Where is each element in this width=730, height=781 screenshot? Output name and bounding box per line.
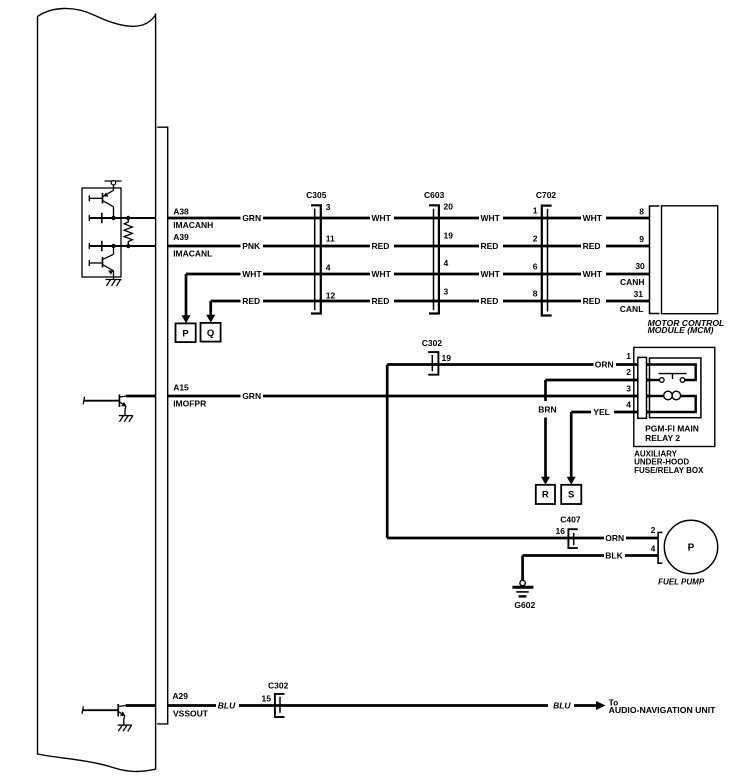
svg-text:G602: G602 <box>514 600 535 610</box>
ground G602 <box>520 580 525 585</box>
wire ORN riser to fuel pump feed <box>386 365 389 539</box>
relay bottom bus (pin4 to coil) <box>650 396 696 412</box>
wire BRN vertical to R <box>541 380 550 485</box>
relay top bus (pin1 to contact) <box>650 365 696 381</box>
relay box outer (aux fuse/relay box) <box>634 347 715 446</box>
svg-text:IMOFPR: IMOFPR <box>173 398 206 408</box>
svg-text:FUEL PUMP: FUEL PUMP <box>658 578 705 587</box>
connector C302 (pin 15) <box>275 694 285 717</box>
wire row4 RED (CANL) <box>211 300 650 303</box>
svg-text:R: R <box>542 490 549 501</box>
transistor Q5 (IMOFPR driver) <box>83 395 127 416</box>
svg-text:GRN: GRN <box>242 391 261 401</box>
svg-text:WHT: WHT <box>481 213 501 223</box>
transistor Q4 (bottom NPN) <box>89 246 113 280</box>
svg-text:WHT: WHT <box>372 213 392 223</box>
svg-text:IMACANL: IMACANL <box>173 248 212 258</box>
svg-text:RED: RED <box>583 241 601 251</box>
wire BLK fuel pump ground <box>523 556 659 581</box>
svg-text:2: 2 <box>651 525 656 535</box>
svg-text:C302: C302 <box>422 338 443 348</box>
connector column bracket (module pin column) <box>157 127 168 724</box>
transistor Q6 (VSSOUT driver) <box>82 704 126 725</box>
svg-text:19: 19 <box>444 230 454 240</box>
svg-text:CANH: CANH <box>620 277 645 287</box>
wire row1 GRN/WHT (IMACANH) <box>168 217 650 220</box>
node on IMACANL <box>111 244 115 248</box>
svg-text:12: 12 <box>326 291 336 301</box>
svg-text:C407: C407 <box>560 514 581 524</box>
svg-text:PNK: PNK <box>242 241 261 251</box>
wire A29 VSSOUT BLU <box>126 704 549 707</box>
connector C302 (pin 19) <box>428 352 438 375</box>
terminal box R <box>536 485 555 504</box>
transistor Q1 (top PNP) <box>89 190 113 207</box>
wire IMACANL feed inside module <box>89 245 155 247</box>
relay armature <box>659 373 687 375</box>
module torn outline (left shield, wavy top/bottom) <box>38 8 156 771</box>
svg-text:3: 3 <box>326 202 331 212</box>
arrow to terminal Q <box>206 301 215 323</box>
terminal box P <box>176 323 196 342</box>
svg-text:IMACANH: IMACANH <box>173 220 213 230</box>
svg-text:VSSOUT: VSSOUT <box>173 709 209 719</box>
svg-text:CANL: CANL <box>620 304 644 314</box>
svg-text:3: 3 <box>444 287 449 297</box>
fuel pump connector bracket <box>658 532 662 563</box>
svg-text:30: 30 <box>635 261 645 271</box>
connector C407 <box>568 529 577 548</box>
wire BRN relay pin2 <box>546 379 650 382</box>
MCM connector bracket <box>650 206 660 314</box>
wire YEL relay pin4 <box>571 411 649 414</box>
svg-text:C302: C302 <box>268 681 289 691</box>
svg-text:RED: RED <box>372 241 390 251</box>
svg-text:4: 4 <box>444 258 449 268</box>
relay connector bar <box>638 357 647 418</box>
svg-text:RELAY 2: RELAY 2 <box>645 433 680 443</box>
svg-text:P: P <box>182 328 189 339</box>
svg-text:AUDIO-NAVIGATION UNIT: AUDIO-NAVIGATION UNIT <box>609 705 717 715</box>
arrow to terminal P <box>182 274 191 323</box>
svg-text:15: 15 <box>262 694 272 704</box>
relay coil <box>650 395 664 397</box>
svg-text:1: 1 <box>626 351 631 361</box>
terminal box S <box>561 485 581 504</box>
svg-text:RED: RED <box>481 241 499 251</box>
svg-text:BLK: BLK <box>605 551 623 561</box>
terminal box Q <box>201 323 221 342</box>
fuel pump motor circle <box>664 520 717 573</box>
svg-text:C305: C305 <box>306 190 327 200</box>
connector C702 <box>542 206 552 316</box>
svg-text:20: 20 <box>444 202 454 212</box>
power terminal circle <box>111 181 115 185</box>
svg-text:8: 8 <box>639 207 644 217</box>
wire power to transistor Q1 <box>113 185 115 191</box>
resistor (CAN termination) <box>124 218 132 246</box>
svg-text:BLU: BLU <box>218 701 236 711</box>
svg-text:RED: RED <box>481 296 499 306</box>
svg-text:1: 1 <box>533 206 538 216</box>
svg-text:BLU: BLU <box>553 701 571 711</box>
connector C305 <box>311 205 321 313</box>
relay PGM-FI main relay 2 inner box <box>650 358 701 418</box>
MCM box <box>662 206 718 314</box>
svg-text:16: 16 <box>556 526 566 536</box>
svg-text:WHT: WHT <box>481 269 501 279</box>
svg-text:19: 19 <box>442 353 452 363</box>
transistor block box (CAN driver) <box>82 188 121 277</box>
svg-text:WHT: WHT <box>583 269 603 279</box>
svg-text:A39: A39 <box>173 232 189 242</box>
node on IMACANH <box>111 216 115 220</box>
svg-text:6: 6 <box>533 262 538 272</box>
svg-text:4: 4 <box>626 400 631 410</box>
svg-text:9: 9 <box>639 234 644 244</box>
wire IMACANH feed inside module <box>89 217 155 219</box>
svg-text:A38: A38 <box>173 207 189 217</box>
ground (Q6 emitter) <box>118 725 132 731</box>
svg-text:ORN: ORN <box>605 533 624 543</box>
svg-text:WHT: WHT <box>372 269 392 279</box>
svg-text:Q: Q <box>207 328 214 339</box>
svg-text:ORN: ORN <box>595 360 614 370</box>
svg-text:WHT: WHT <box>242 269 262 279</box>
wire Q1 collector to node <box>113 207 115 218</box>
svg-text:WHT: WHT <box>583 213 603 223</box>
connector C603 <box>429 205 439 313</box>
wire row2 PNK/RED (IMACANL) <box>168 245 650 248</box>
ground (Q5 emitter) <box>119 416 133 422</box>
svg-text:2: 2 <box>626 367 631 377</box>
svg-text:4: 4 <box>326 262 331 272</box>
ground (transistor block) <box>106 280 122 287</box>
svg-text:2: 2 <box>533 234 538 244</box>
svg-text:YEL: YEL <box>593 407 610 417</box>
wire A15 IMOFPR GRN <box>126 395 650 398</box>
power terminal line <box>105 180 122 182</box>
svg-text:RED: RED <box>583 296 601 306</box>
svg-text:BRN: BRN <box>538 405 556 415</box>
svg-text:GRN: GRN <box>242 213 261 223</box>
wire ORN relay pin1 <box>387 363 649 366</box>
svg-text:MODULE (MCM): MODULE (MCM) <box>648 325 714 335</box>
transistor Q2 (IMACANH driver) <box>89 213 102 223</box>
transistor Q3 (IMACANL driver) <box>89 241 102 251</box>
svg-text:S: S <box>568 490 574 501</box>
arrow to audio-navigation unit <box>574 701 605 710</box>
relay contact circles <box>650 379 660 381</box>
svg-text:RED: RED <box>372 296 390 306</box>
wire ORN to fuel pump <box>387 537 658 540</box>
wire row3 WHT (CANH) <box>186 273 650 276</box>
svg-text:11: 11 <box>326 234 335 244</box>
svg-text:8: 8 <box>533 289 538 299</box>
svg-text:4: 4 <box>651 544 656 554</box>
svg-text:31: 31 <box>634 289 644 299</box>
svg-text:FUSE/RELAY BOX: FUSE/RELAY BOX <box>634 466 704 475</box>
wire YEL vertical to S <box>567 412 576 485</box>
svg-text:C702: C702 <box>536 190 557 200</box>
svg-text:3: 3 <box>626 383 631 393</box>
svg-text:C603: C603 <box>424 190 445 200</box>
svg-text:A29: A29 <box>172 691 188 701</box>
svg-text:A15: A15 <box>173 383 189 393</box>
svg-text:RED: RED <box>242 296 260 306</box>
svg-text:P: P <box>688 543 695 554</box>
